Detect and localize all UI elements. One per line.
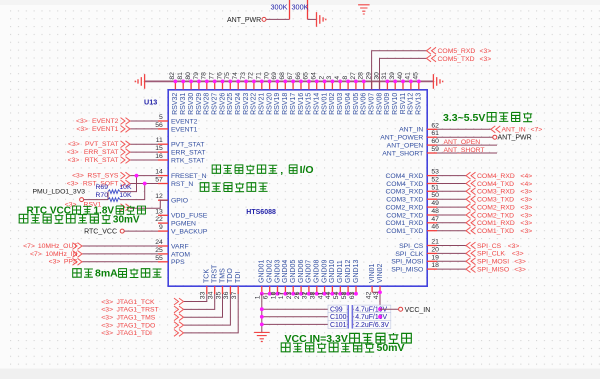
- wire + sheet entry RST_SYS: [130, 175, 158, 177]
- pin 46 COM1_TXD (right): [427, 230, 437, 232]
- svg-text:RSV04: RSV04: [345, 93, 352, 115]
- pin 23 GND05 (bottom): [292, 286, 294, 294]
- svg-text:2: 2: [318, 76, 325, 80]
- pin 6 GND02 (bottom): [269, 286, 271, 294]
- svg-text:RSV27: RSV27: [212, 93, 219, 115]
- sheet entry RSV1: [121, 204, 131, 211]
- wire + sheet entry 10MHz_IN: [82, 253, 158, 255]
- capacitor C99 4.7uF/10V: [262, 308, 348, 310]
- svg-text:6: 6: [263, 295, 270, 299]
- annotation: VCC_IN ripple line1 (green): [285, 333, 412, 345]
- ground (GND/cap rail): [254, 332, 270, 341]
- svg-text:3: 3: [326, 76, 333, 80]
- svg-text:23: 23: [286, 291, 293, 299]
- svg-text:82: 82: [169, 72, 176, 80]
- wire JTAG1_TCK: [184, 294, 207, 302]
- wire RSV1 to GPIO pin 12: [130, 200, 168, 208]
- svg-text:<4>: <4>: [521, 173, 533, 180]
- svg-text:72: 72: [248, 72, 255, 80]
- svg-text:RSV24: RSV24: [235, 93, 242, 115]
- svg-text:RSV28: RSV28: [204, 93, 211, 115]
- pin 67 RSV17 (top): [292, 81, 294, 89]
- pin 4 RSV03 (top): [339, 81, 341, 89]
- svg-text:39: 39: [389, 72, 396, 80]
- svg-text:19: 19: [431, 254, 439, 261]
- sheet entry JTAG1_TMS: [174, 314, 184, 321]
- svg-text:RSV18: RSV18: [282, 93, 289, 115]
- svg-text:54: 54: [333, 291, 340, 299]
- wire VIN01/VIN02 join: [372, 292, 380, 324]
- pin 61 ANT_POWER (right): [427, 136, 437, 138]
- svg-text:ANT_OPEN: ANT_OPEN: [387, 143, 424, 150]
- svg-text:38: 38: [310, 291, 317, 299]
- svg-text:ANT_SHORT: ANT_SHORT: [382, 150, 423, 157]
- svg-text:RSV23: RSV23: [243, 93, 250, 115]
- svg-text:PPS: PPS: [171, 259, 185, 266]
- svg-text:RTK_STAT: RTK_STAT: [85, 157, 119, 164]
- pin 54 GND11 (bottom): [339, 286, 341, 294]
- svg-text:31: 31: [381, 72, 388, 80]
- connector circle PMU_LDO1_3V3: [80, 198, 84, 202]
- svg-text:RSV17: RSV17: [290, 93, 297, 115]
- pin 45 RSV13 (top): [418, 81, 420, 89]
- pin 31 RSV09 (top): [386, 81, 388, 89]
- svg-text:73: 73: [240, 72, 247, 80]
- sheet entry SPI_CLK: [466, 250, 476, 257]
- ground symbol top middle: [358, 5, 370, 14]
- svg-text:ANT_PWR: ANT_PWR: [498, 135, 532, 142]
- svg-text:RSV21: RSV21: [259, 93, 266, 115]
- svg-text:<3>: <3>: [514, 266, 526, 273]
- pin 48 COM2_TXD (right): [427, 214, 437, 216]
- svg-text:<3>: <3>: [76, 126, 88, 133]
- svg-text:EVENT2: EVENT2: [171, 118, 198, 125]
- pin 68 RSV18 (top): [284, 81, 286, 89]
- svg-text:4: 4: [334, 76, 341, 80]
- svg-text:VIN02: VIN02: [377, 263, 384, 283]
- svg-text:GND01: GND01: [259, 260, 266, 283]
- pin 26 GND06 (bottom): [300, 286, 302, 294]
- svg-text:<3>: <3>: [512, 251, 524, 258]
- svg-text:36: 36: [223, 291, 230, 299]
- svg-text:COM2_RXD: COM2_RXD: [386, 205, 424, 212]
- svg-text:46: 46: [431, 224, 439, 231]
- svg-text:V_BACKUP: V_BACKUP: [171, 229, 208, 236]
- svg-text:RTC_VCC: RTC_VCC: [84, 228, 117, 235]
- wire ANT_POWER to ANT_PWR: [437, 136, 493, 138]
- svg-text:COM1_RXD: COM1_RXD: [477, 220, 515, 227]
- sheet entry COM1_RXD: [466, 219, 476, 226]
- svg-text:RSV02: RSV02: [329, 93, 336, 115]
- pin 62 ANT_IN (right): [427, 128, 437, 130]
- annotation: RTC VCC ripple line2 (green): [19, 214, 140, 225]
- svg-text:<7>: <7>: [531, 127, 543, 134]
- svg-text:41: 41: [317, 291, 324, 299]
- svg-text:20: 20: [431, 246, 439, 253]
- svg-text:<3>: <3>: [521, 228, 533, 235]
- pin 15 ERR_STAT (left): [158, 151, 168, 153]
- pin 13 VDD_FUSE (left): [158, 214, 168, 216]
- svg-text:11: 11: [156, 137, 163, 144]
- pin 80 RSV30 (top): [190, 81, 192, 89]
- svg-text:300K: 300K: [292, 2, 309, 11]
- svg-text:COM1_TXD: COM1_TXD: [477, 228, 514, 235]
- top margin strip: [0, 0, 600, 5]
- pin 69 RSV19 (top): [276, 81, 278, 89]
- svg-text:10K: 10K: [119, 184, 132, 191]
- annotation: quick software reset (green): [200, 182, 267, 191]
- svg-text:TCK: TCK: [204, 269, 211, 283]
- svg-text:25: 25: [155, 247, 163, 254]
- svg-text:RSV29: RSV29: [196, 93, 203, 115]
- svg-text:10MHz_OUT: 10MHz_OUT: [38, 243, 78, 250]
- svg-text:GND09: GND09: [321, 260, 328, 283]
- svg-text:27: 27: [350, 72, 357, 80]
- svg-text:ANT_OPEN: ANT_OPEN: [444, 139, 481, 146]
- svg-text:RSV01: RSV01: [321, 93, 328, 115]
- svg-text:<3>: <3>: [521, 212, 533, 219]
- svg-text:RSV08: RSV08: [376, 93, 383, 115]
- svg-text:<3>: <3>: [67, 180, 79, 187]
- svg-text:<3>: <3>: [101, 315, 113, 322]
- svg-text:GND08: GND08: [314, 260, 321, 283]
- svg-text:300K: 300K: [271, 2, 288, 11]
- svg-text:GND07: GND07: [306, 260, 313, 283]
- svg-text:55: 55: [155, 255, 163, 262]
- svg-text:ANT_POWER: ANT_POWER: [380, 135, 423, 142]
- wire net ANT_SHORT: [437, 152, 497, 154]
- connector circle ANT_PWR: [262, 17, 266, 21]
- connector circle RTC_VCC: [120, 229, 124, 233]
- sheet entry JTAG1_TDI: [174, 330, 184, 337]
- svg-text:RSV32: RSV32: [172, 93, 179, 115]
- sheet entry ANT_IN: [491, 126, 501, 133]
- svg-text:<3>: <3>: [101, 322, 113, 329]
- pin 40 RSV11 (top): [402, 81, 404, 89]
- svg-text:TRST: TRST: [212, 264, 219, 283]
- svg-text:<3>: <3>: [68, 157, 80, 164]
- svg-text:RSV06: RSV06: [361, 93, 368, 115]
- svg-text:14: 14: [155, 169, 163, 176]
- pin 16 RTK_STAT (left): [158, 159, 168, 161]
- annotation: RTC VCC ripple line1 (green): [27, 206, 146, 217]
- svg-text:30mV: 30mV: [113, 214, 140, 225]
- svg-text:COM2_RXD: COM2_RXD: [477, 204, 515, 211]
- svg-text:13: 13: [155, 208, 163, 215]
- svg-text:<3>: <3>: [72, 173, 84, 180]
- svg-text:35: 35: [215, 291, 222, 299]
- pin 11 PVT_STAT (left): [158, 143, 168, 145]
- pin 3 RSV02 (top): [331, 81, 333, 89]
- pin 12 GPIO (left): [158, 199, 168, 201]
- pin 73 RSV23 (top): [245, 81, 247, 89]
- svg-text:GPIO: GPIO: [171, 198, 188, 205]
- wire + sheet entry PPS: [82, 261, 158, 263]
- pin 27 RSV05 (top): [355, 81, 357, 89]
- svg-text:VCC_IN: VCC_IN: [405, 307, 431, 314]
- wire SPI_MISO: [437, 268, 466, 270]
- svg-text:COM3_RXD: COM3_RXD: [477, 189, 515, 196]
- svg-text:SPI_CLK: SPI_CLK: [395, 251, 423, 258]
- sheet entry COM5_TXD: [427, 55, 437, 62]
- svg-text:JTAG1_TCK: JTAG1_TCK: [117, 299, 155, 306]
- sheet entry COM1_TXD: [466, 227, 476, 234]
- wire COM1_TXD: [437, 230, 466, 232]
- svg-text:SPI_CS: SPI_CS: [399, 243, 424, 250]
- pin 60 ANT_OPEN (right): [427, 144, 437, 146]
- svg-text:37: 37: [231, 291, 238, 299]
- svg-text:<4>: <4>: [521, 181, 533, 188]
- wire COM4_TXD: [437, 183, 466, 185]
- capacitor C100 4.7uF/10V: [262, 316, 348, 318]
- pin 25 ATOM (left): [158, 253, 168, 255]
- wire ANT_IN: [437, 128, 491, 130]
- pin 53 COM4_RXD (right): [427, 175, 437, 177]
- pin 74 RSV24 (top): [237, 81, 239, 89]
- wire/junction RST_SOFT to R70: [120, 184, 145, 200]
- pin 43 VIN02 (bottom): [379, 286, 381, 292]
- svg-text:32: 32: [302, 291, 309, 299]
- svg-text:EVENT2: EVENT2: [92, 118, 119, 125]
- svg-text:GND13: GND13: [353, 260, 360, 283]
- svg-text:ERR_STAT: ERR_STAT: [84, 149, 119, 156]
- svg-text:70: 70: [263, 72, 270, 80]
- wire COM2_RXD: [437, 206, 466, 208]
- svg-text:VARF: VARF: [171, 243, 189, 250]
- svg-text:RSV09: RSV09: [384, 93, 391, 115]
- svg-text:JTAG1_TMS: JTAG1_TMS: [117, 315, 156, 322]
- svg-text:RSV25: RSV25: [227, 93, 234, 115]
- svg-text:53: 53: [431, 169, 439, 176]
- pin 38 GND08 (bottom): [316, 286, 318, 294]
- sheet entry JTAG1_TRST: [174, 306, 184, 313]
- pin 81 RSV31 (top): [182, 81, 184, 89]
- wire COM5_RXD from pin 29: [372, 51, 427, 90]
- svg-text:<3>: <3>: [521, 220, 533, 227]
- svg-text:COM2_TXD: COM2_TXD: [477, 212, 514, 219]
- svg-text:COM1_RXD: COM1_RXD: [386, 220, 424, 227]
- sheet entry SPI_MISO: [466, 266, 476, 273]
- pin 57 RST_N (left): [158, 183, 168, 185]
- svg-text:HTS6088: HTS6088: [246, 209, 276, 216]
- connector circle ANT_PWR (right): [493, 135, 497, 139]
- svg-text:PVT_STAT: PVT_STAT: [85, 141, 118, 148]
- svg-text:47: 47: [431, 216, 439, 223]
- annotation: factory reset note (green): [212, 164, 313, 177]
- svg-text:VDD_FUSE: VDD_FUSE: [171, 213, 208, 220]
- svg-text:U13: U13: [144, 98, 157, 107]
- wire JTAG1_TDI: [184, 294, 239, 333]
- wire VCC_IN: [380, 308, 398, 310]
- svg-text:RSV11: RSV11: [400, 93, 407, 115]
- pin 77 RSV27 (top): [214, 81, 216, 89]
- svg-text:GND04: GND04: [282, 260, 289, 283]
- svg-text:71: 71: [256, 72, 263, 80]
- svg-text:GND02: GND02: [267, 260, 274, 283]
- resistor R70 10K: [108, 198, 120, 202]
- pin 39 RSV10 (top): [394, 81, 396, 89]
- wire COM1_RXD: [437, 222, 466, 224]
- pin 2 RSV01 (top): [324, 81, 326, 89]
- svg-text:TMS: TMS: [219, 268, 226, 283]
- resistor 300K #1 lead: [289, 0, 291, 19]
- svg-text:64: 64: [311, 72, 318, 80]
- svg-text:74: 74: [232, 72, 239, 80]
- svg-text:VIN01: VIN01: [369, 263, 376, 283]
- sheet entry COM2_RXD: [466, 204, 476, 211]
- sheet entry SPI_MOSI: [466, 258, 476, 265]
- pin 21 SPI_CS (right): [427, 245, 437, 247]
- pin 9 V_BACKUP (left): [158, 230, 168, 232]
- svg-text:75: 75: [224, 72, 231, 80]
- svg-text:59: 59: [431, 146, 439, 153]
- capacitor C101 2.2uF/6.3V: [262, 323, 348, 325]
- svg-text:33: 33: [200, 291, 207, 299]
- pin 19 SPI_MOSI (right): [427, 260, 437, 262]
- svg-text:SPI_MISO: SPI_MISO: [391, 267, 423, 274]
- svg-text:RSV31: RSV31: [180, 93, 187, 115]
- pin 5 EVENT2 (left): [158, 120, 168, 122]
- svg-text:28: 28: [358, 72, 365, 80]
- svg-text:RSV30: RSV30: [188, 93, 195, 115]
- svg-text:8: 8: [342, 76, 349, 80]
- wire + sheet entry PVT_STAT: [130, 143, 158, 145]
- svg-text:RSV16: RSV16: [298, 93, 305, 115]
- svg-text:69: 69: [271, 72, 278, 80]
- pin 37 TDI (bottom): [237, 286, 239, 294]
- svg-text:GND10: GND10: [329, 260, 336, 283]
- svg-text:58: 58: [341, 291, 348, 299]
- svg-text:18: 18: [431, 262, 439, 269]
- svg-text:21: 21: [431, 239, 439, 246]
- wire RTC_VCC to V_BACKUP: [124, 230, 158, 232]
- svg-text:40: 40: [397, 72, 404, 80]
- svg-text:SPI_MOSI: SPI_MOSI: [391, 259, 423, 266]
- svg-text:EVENT1: EVENT1: [92, 126, 119, 133]
- svg-text:45: 45: [413, 72, 420, 80]
- pin 1 GND01 (bottom): [261, 286, 263, 294]
- svg-text:RSV26: RSV26: [219, 93, 226, 115]
- wire JTAG1_TMS: [184, 294, 223, 317]
- svg-text:<3>: <3>: [480, 48, 492, 55]
- svg-text:9: 9: [159, 224, 163, 231]
- pin 42 VIN01 (bottom): [371, 286, 373, 292]
- svg-text:RSV15: RSV15: [306, 93, 313, 115]
- rotated ground after 300K: [317, 12, 326, 27]
- sheet entry COM2_TXD: [466, 212, 476, 219]
- svg-text:63: 63: [349, 291, 356, 299]
- svg-text:<3>: <3>: [101, 299, 113, 306]
- pin 33 TCK (bottom): [206, 286, 208, 294]
- annotation: max 8mA drive (green): [73, 268, 162, 280]
- svg-text:RST_SYS: RST_SYS: [87, 173, 118, 180]
- svg-text:65: 65: [303, 72, 310, 80]
- pin 10 GND03 (bottom): [277, 286, 279, 294]
- pin 63 GND13 (bottom): [355, 286, 357, 294]
- wire GND bus down to ground: [261, 294, 263, 333]
- svg-text:10MHz_IN: 10MHz_IN: [45, 251, 77, 258]
- pin 18 SPI_MISO (right): [427, 268, 437, 270]
- svg-text:COM3_RXD: COM3_RXD: [386, 189, 424, 196]
- svg-text:60: 60: [431, 138, 439, 145]
- pin 75 RSV25 (top): [229, 81, 231, 89]
- svg-text:ERR_STAT: ERR_STAT: [171, 150, 206, 157]
- svg-text:COM4_TXD: COM4_TXD: [477, 181, 514, 188]
- svg-text:15: 15: [155, 145, 163, 152]
- pin 66 RSV16 (top): [300, 81, 302, 89]
- ground at right end of RSV bus: [433, 74, 442, 89]
- sheet entry SPI_CS: [466, 242, 476, 249]
- svg-text:COM2_TXD: COM2_TXD: [386, 212, 423, 219]
- sheet entry COM5_RXD: [427, 47, 437, 54]
- wire net ANT_OPEN: [437, 144, 497, 146]
- svg-text:SPI_CS: SPI_CS: [477, 243, 502, 250]
- svg-text:RST_N: RST_N: [171, 181, 193, 188]
- wire JTAG1_TDO: [184, 294, 231, 325]
- svg-text:TDI: TDI: [235, 272, 242, 283]
- pin 47 COM1_RXD (right): [427, 222, 437, 224]
- wire + sheet entry 10MHz_OUT: [82, 245, 158, 247]
- svg-text:<3>: <3>: [514, 259, 526, 266]
- svg-text:RSV03: RSV03: [337, 93, 344, 115]
- svg-text:66: 66: [295, 72, 302, 80]
- svg-text:SPI_CLK: SPI_CLK: [477, 251, 505, 258]
- svg-text:COM4_RXD: COM4_RXD: [386, 173, 424, 180]
- wire COM3_RXD: [437, 190, 466, 192]
- svg-text:78: 78: [201, 72, 208, 80]
- resistor 300K #2 lead: [307, 0, 309, 19]
- wire COM4_RXD: [437, 175, 466, 177]
- svg-text:5: 5: [159, 114, 163, 121]
- svg-text:62: 62: [431, 122, 439, 129]
- svg-text:ANT_IN: ANT_IN: [399, 127, 423, 134]
- svg-text:49: 49: [431, 200, 439, 207]
- svg-text:56: 56: [155, 122, 163, 129]
- svg-text:1.8V: 1.8V: [94, 206, 115, 217]
- pin 49 COM2_RXD (right): [427, 206, 437, 208]
- svg-text:ATOM: ATOM: [171, 251, 190, 258]
- svg-text:17: 17: [278, 291, 285, 299]
- svg-text:R69: R69: [96, 184, 109, 191]
- svg-text:COM3_TXD: COM3_TXD: [386, 197, 423, 204]
- wire SPI_CS: [437, 245, 466, 247]
- svg-text:COM4_RXD: COM4_RXD: [477, 173, 515, 180]
- svg-text:ANT_IN: ANT_IN: [502, 127, 526, 134]
- pin 32 GND07 (bottom): [308, 286, 310, 294]
- svg-text:3.3~5.5V: 3.3~5.5V: [443, 112, 485, 124]
- wire/junction RST_SYS to R69: [120, 176, 137, 192]
- svg-text:PVT_STAT: PVT_STAT: [171, 142, 204, 149]
- svg-text:61: 61: [431, 130, 439, 137]
- svg-text:10K: 10K: [119, 192, 132, 199]
- svg-text:RSV12: RSV12: [408, 93, 415, 115]
- wire: top RSV ground bus: [145, 80, 434, 82]
- pin 65 RSV15 (top): [308, 81, 310, 89]
- wire COM2_TXD: [437, 214, 466, 216]
- wire COM3_TXD: [437, 198, 466, 200]
- svg-text:<3>: <3>: [521, 204, 533, 211]
- svg-text:57: 57: [155, 177, 163, 184]
- svg-text:10: 10: [270, 291, 277, 299]
- pin 59 ANT_SHORT (right): [427, 152, 437, 154]
- wire + sheet entry RTK_STAT: [130, 159, 158, 161]
- pin 41 GND09 (bottom): [324, 286, 326, 294]
- pin 14 FRESET_N (left): [158, 175, 168, 177]
- svg-text:50mV: 50mV: [377, 342, 405, 354]
- svg-text:51: 51: [431, 184, 439, 191]
- pin 8 RSV04 (top): [347, 81, 349, 89]
- svg-text:GND05: GND05: [290, 260, 297, 283]
